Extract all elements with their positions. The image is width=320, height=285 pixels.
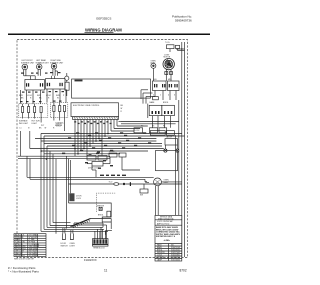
svg-text:11: 11 (104, 269, 108, 273)
svg-text:RELAY: RELAY (109, 150, 116, 153)
junction dots fanout (77, 133, 109, 155)
oven sensor (97, 206, 105, 211)
footer left footnotes (8, 266, 39, 274)
svg-text:KW RATING 240V 7.4: KW RATING 240V 7.4 (156, 235, 176, 238)
EOC pin strip (73, 117, 119, 120)
svg-text:L1: L1 (20, 128, 22, 130)
svg-text:<LINE>: <LINE> (164, 239, 171, 242)
latch assembly box (156, 151, 178, 171)
svg-text:2: 2 (153, 95, 154, 97)
latch box (165, 136, 178, 149)
wires below switches (21, 89, 67, 104)
small box under lamp (140, 184, 148, 197)
oven vent component (65, 73, 69, 96)
header publication no (172, 15, 192, 23)
labels under indicator boxes (19, 120, 64, 128)
svg-text:BAKE: BAKE (150, 101, 156, 104)
svg-text:LIGHT: LIGHT (32, 123, 38, 125)
right bus connection top (176, 42, 185, 257)
svg-text:316116400: 316116400 (171, 260, 180, 262)
labels above right band (153, 79, 172, 81)
svg-text:LIGHT: LIGHT (70, 245, 76, 247)
wire label ticks on midband (62, 132, 151, 154)
svg-text:IND LIGHT: IND LIGHT (19, 123, 29, 125)
door lock motor dark box (69, 193, 82, 201)
surface unit labels (21, 59, 64, 64)
header title WIRING DIAGRAM (85, 28, 123, 33)
left vertical bundle (21, 131, 57, 234)
svg-text:TCO: TCO (109, 182, 113, 184)
wire code label row above lamp line (100, 175, 126, 176)
switch band labels (19, 95, 65, 100)
console box (72, 79, 151, 98)
svg-text:LOCK: LOCK (135, 130, 141, 132)
svg-text:P3: P3 (152, 126, 154, 128)
svg-text:MDL: MDL (168, 79, 172, 81)
relay boxes right of EOC (148, 100, 179, 128)
svg-text:LOCK: LOCK (56, 126, 62, 128)
indicator element drop wires (23, 103, 65, 131)
wires below right band (141, 90, 176, 104)
broil element (71, 215, 104, 228)
svg-text:BROIL: BROIL (98, 215, 103, 217)
header rule (8, 33, 210, 35)
oven lamp circle (154, 178, 182, 186)
svg-text:WIRING DIAGRAM: WIRING DIAGRAM (85, 28, 122, 33)
conv motor (hatched circle) (163, 58, 174, 69)
svg-text:W: W (45, 128, 47, 130)
oven box (69, 203, 112, 222)
svg-text:LOCK: LOCK (76, 198, 82, 200)
motor labels (150, 55, 171, 65)
svg-text:* < Non-Illustrated Parts: * < Non-Illustrated Parts (8, 270, 39, 274)
right lockout box (50, 103, 68, 118)
svg-text:F1402XXX: F1402XXX (84, 258, 97, 262)
svg-text:SURFACE UNIT: SURFACE UNIT (21, 61, 35, 64)
wires from elements to terminal (91, 219, 112, 239)
inner dashed oven box (96, 193, 115, 212)
surface unit 3 (51, 64, 57, 76)
infinite switch box B (46, 76, 66, 89)
junction dots midband (40, 148, 75, 160)
electronic oven control (71, 103, 119, 117)
wire to lamp (27, 156, 154, 183)
bundle L-turns to oven area (41, 223, 108, 232)
svg-text:ELECTRONIC OVEN CONTROL: ELECTRONIC OVEN CONTROL (73, 105, 99, 107)
left oven verticals (67, 156, 71, 228)
TOD label and boxes (165, 42, 185, 52)
EOC pin fanout wires (75, 119, 179, 156)
svg-text:SURFACE UNIT: SURFACE UNIT (36, 61, 50, 64)
svg-text:W: W (57, 98, 59, 100)
svg-text:4: 4 (168, 95, 169, 97)
svg-text:LAMP: LAMP (157, 259, 163, 262)
svg-text:TERM BLOCK: TERM BLOCK (93, 247, 105, 249)
svg-text:SW: SW (140, 195, 143, 197)
svg-text:WIRE COLOR CODE KEY: WIRE COLOR CODE KEY (14, 259, 35, 261)
surface unit 1 (22, 64, 28, 76)
svg-text:XX SPARE: XX SPARE (29, 254, 39, 257)
svg-text:GEF355CS: GEF355CS (96, 17, 111, 21)
svg-text:LAMP: LAMP (164, 181, 170, 184)
outer dashed border (17, 40, 188, 258)
bake element (74, 223, 103, 227)
svg-text:SH SHIELD: SH SHIELD (15, 255, 26, 257)
svg-text:8702: 8702 (180, 269, 187, 273)
svg-text:AMPS 40 HZ 60: AMPS 40 HZ 60 (157, 222, 169, 225)
right relay contacts (153, 81, 167, 91)
EOC side pin labels (121, 105, 124, 113)
legend table text smudge (15, 234, 40, 258)
svg-text:5995409736: 5995409736 (175, 19, 192, 23)
svg-text:SWITCH: SWITCH (61, 245, 69, 247)
labels above left bundle (20, 124, 63, 130)
latch terminals (164, 149, 179, 152)
infinite switch box A (24, 76, 45, 90)
surface unit 2 (36, 64, 42, 76)
motor leads (165, 70, 173, 82)
svg-text:DOOR LOCK: DOOR LOCK (88, 168, 100, 170)
svg-text:3: 3 (174, 95, 175, 97)
small lamp circle (151, 63, 156, 81)
wire code specks top-left (20, 72, 64, 102)
svg-text:SHEET 5995409736: SHEET 5995409736 (158, 218, 174, 220)
pin wire-code labels (74, 121, 111, 124)
svg-text:BROIL: BROIL (163, 102, 168, 104)
svg-text:1: 1 (160, 95, 161, 97)
svg-text:P2: P2 (141, 126, 143, 128)
svg-text:W: W (121, 108, 123, 110)
svg-text:T.O.D.: T.O.D. (165, 42, 171, 44)
left lockout box (19, 104, 48, 118)
fuse line (69, 182, 182, 187)
svg-text:P4: P4 (163, 126, 165, 128)
